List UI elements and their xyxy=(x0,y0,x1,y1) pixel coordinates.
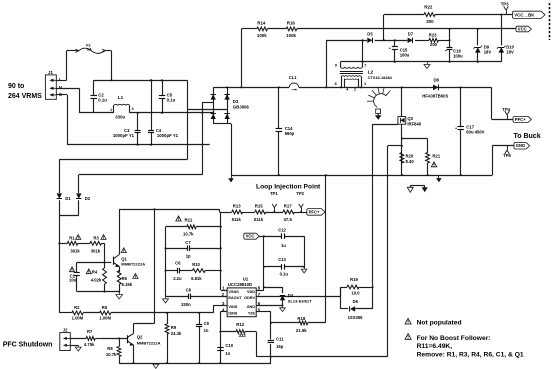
wire mid ground rail xyxy=(231,175,492,177)
bridge rectifier D3 xyxy=(211,87,230,123)
text D1 xyxy=(65,196,71,201)
text C11 value xyxy=(276,336,284,349)
svg-text:R1: R1 xyxy=(69,235,75,240)
warning triangle R3 xyxy=(101,235,106,240)
svg-text:R5: R5 xyxy=(102,305,108,310)
wire VSNS vertical xyxy=(220,212,222,290)
wire D1 D2 join xyxy=(59,215,79,313)
warning triangle R11 xyxy=(176,216,181,221)
svg-text:To Buck: To Buck xyxy=(514,133,541,140)
capacitor C9 xyxy=(196,313,202,363)
svg-text:R15: R15 xyxy=(255,203,263,208)
capacitor C6 R10 branch xyxy=(166,268,221,274)
text Q1 label xyxy=(121,256,145,266)
svg-text:100k: 100k xyxy=(257,33,267,38)
text L2 label xyxy=(368,70,393,80)
wire J1-L to fuse riser xyxy=(56,51,66,81)
diode D6 loop xyxy=(340,286,374,309)
text D3 GBJ606 xyxy=(233,99,250,109)
svg-text:R22: R22 xyxy=(424,5,433,10)
wire VINS line xyxy=(59,312,213,314)
text To Buck xyxy=(514,133,541,140)
test point TP2 xyxy=(296,191,304,213)
text D9 value xyxy=(484,45,492,55)
svg-text:D6: D6 xyxy=(353,299,359,304)
ground at C8 xyxy=(163,296,169,303)
wire PFC+ drop xyxy=(492,87,514,119)
wire loop line xyxy=(119,208,220,212)
text R3 xyxy=(91,235,101,253)
ground at D4 xyxy=(280,305,286,311)
text R14 value xyxy=(257,21,267,39)
text R18 value xyxy=(296,316,307,333)
wire source sense branch xyxy=(401,138,428,140)
svg-text:6.81k: 6.81k xyxy=(191,276,202,281)
text C16 value xyxy=(453,48,463,58)
wire loop injection line xyxy=(220,212,307,214)
svg-text:200: 200 xyxy=(430,42,438,47)
wire D2 feed xyxy=(79,175,203,194)
resistor R20 xyxy=(400,153,404,164)
test point TP4 xyxy=(502,107,510,119)
net flag PFC+ loop xyxy=(307,209,325,216)
fuse F1 xyxy=(66,48,111,53)
svg-text:1.00M: 1.00M xyxy=(99,315,111,320)
capacitor C15 xyxy=(389,40,398,62)
diode D2 xyxy=(76,193,81,215)
svg-text:8.40: 8.40 xyxy=(406,159,415,164)
svg-text:C9: C9 xyxy=(204,321,210,326)
svg-text:TP2: TP2 xyxy=(296,191,304,196)
svg-text:R14: R14 xyxy=(257,21,266,26)
diode D5 xyxy=(367,32,373,44)
wire bias ground rail xyxy=(340,61,501,63)
text C2 value xyxy=(98,92,107,102)
capacitor C7 branch xyxy=(166,245,221,251)
svg-text:D7: D7 xyxy=(408,32,414,37)
wire pin3 VINS jog xyxy=(213,305,227,313)
svg-text:301k: 301k xyxy=(70,249,80,254)
resistor R1 xyxy=(67,241,78,245)
svg-text:6.19k: 6.19k xyxy=(122,282,133,287)
wire R7 to Q2 base xyxy=(95,338,100,340)
junction dots on bus xyxy=(226,86,462,88)
text Q3 label xyxy=(407,116,421,126)
svg-text:R20: R20 xyxy=(406,154,414,159)
svg-text:R4: R4 xyxy=(92,270,98,275)
svg-text:R23: R23 xyxy=(429,32,437,37)
svg-text:GDRV: GDRV xyxy=(244,296,255,300)
wire L feed to bridge xyxy=(187,80,227,159)
resistor R15 xyxy=(255,210,266,214)
resistor R5 xyxy=(100,311,111,315)
wire R12 return xyxy=(256,332,271,357)
text U1 label xyxy=(228,276,252,287)
wire Q2 base line xyxy=(100,337,127,339)
capacitor C4 xyxy=(148,79,154,145)
resistor R19 xyxy=(347,285,359,289)
svg-text:MMBT2222A: MMBT2222A xyxy=(137,341,161,346)
wire VCC line xyxy=(241,28,516,30)
text C3 value xyxy=(113,128,135,138)
resistor R9 xyxy=(165,313,169,363)
text Q2 label xyxy=(137,335,161,346)
svg-text:R11=6.49K,: R11=6.49K, xyxy=(417,343,453,350)
svg-text:1n: 1n xyxy=(225,351,230,356)
text R8 value xyxy=(106,346,117,357)
wire pin8 VDD riser xyxy=(256,235,265,290)
text R11 value xyxy=(183,218,194,237)
wire bus tap to R14 line xyxy=(241,29,243,88)
resistor R2 xyxy=(72,311,83,315)
wire comp left rail xyxy=(165,227,167,296)
svg-text:R3: R3 xyxy=(93,235,99,240)
inductor L2 main winding xyxy=(341,76,362,88)
inductor L2 bias winding xyxy=(340,62,362,68)
svg-text:D2: D2 xyxy=(85,196,91,201)
text R16 value xyxy=(286,21,296,39)
warning triangle note2 xyxy=(405,334,411,340)
svg-text:D8: D8 xyxy=(434,78,440,83)
svg-text:C11: C11 xyxy=(276,336,284,341)
text CL1 xyxy=(289,75,297,80)
text R17 value xyxy=(284,203,293,222)
svg-text:R19: R19 xyxy=(350,277,358,282)
svg-text:1.00M: 1.00M xyxy=(72,315,84,320)
svg-text:CTX16-18484: CTX16-18484 xyxy=(368,75,393,80)
capacitor C1 xyxy=(74,262,105,291)
resistor R22 xyxy=(424,13,435,17)
svg-text:C13: C13 xyxy=(278,257,286,262)
ground J2 pin2 xyxy=(70,345,81,351)
text L1 labels xyxy=(110,95,134,119)
wire Q2 collector xyxy=(134,209,155,323)
svg-text:L: L xyxy=(59,77,62,82)
capacitor C8 EAOUT line xyxy=(166,294,228,300)
svg-text:MMBT2222A: MMBT2222A xyxy=(121,262,145,267)
ground arrow mid rail xyxy=(436,175,442,182)
wire filter top bus xyxy=(94,80,188,82)
diode D6 xyxy=(350,306,356,311)
text R22 value xyxy=(424,5,434,25)
svg-text:60u 450V: 60u 450V xyxy=(466,130,484,135)
svg-text:511k: 511k xyxy=(232,217,242,222)
svg-text:C10: C10 xyxy=(225,343,233,348)
diode D7 xyxy=(408,32,414,44)
text R10 value xyxy=(191,262,202,281)
wire rectified bus xyxy=(213,87,491,89)
junction dots bias line xyxy=(383,39,451,41)
svg-text:511k: 511k xyxy=(254,217,264,222)
wire pin7 GDRV xyxy=(256,296,340,298)
wire VCC line to C12 xyxy=(259,236,304,238)
resistor R16 xyxy=(286,27,297,31)
svg-text:UCC28810D: UCC28810D xyxy=(228,282,252,287)
capacitor C5 xyxy=(159,80,165,113)
spark gap symbol xyxy=(367,87,390,119)
svg-text:264 VRMS: 264 VRMS xyxy=(8,93,42,100)
text R21 label xyxy=(432,154,440,159)
junction dots bottom bus xyxy=(137,112,204,114)
wire GND flag to rail xyxy=(492,146,514,176)
net flag PFC+ output xyxy=(513,116,531,122)
svg-text:R12: R12 xyxy=(236,322,244,327)
svg-text:Remove: R1, R3, R4, R6, C1, &: Remove: R1, R3, R4, R6, C1, & Q1 xyxy=(417,352,524,359)
wire pin4 ISNS xyxy=(220,312,227,364)
wire bridge minus to chassis xyxy=(227,124,231,176)
wire R22 line xyxy=(384,15,513,41)
svg-text:2: 2 xyxy=(354,88,356,92)
svg-text:EAOUT: EAOUT xyxy=(228,296,242,300)
warning triangle R4 xyxy=(86,269,91,274)
svg-text:1000pF Y1: 1000pF Y1 xyxy=(113,133,135,138)
wire N riser to bridge xyxy=(202,102,213,175)
svg-text:18V: 18V xyxy=(484,49,492,54)
svg-text:N: N xyxy=(59,85,62,90)
text R6 label xyxy=(122,276,133,287)
ground below R6 xyxy=(116,292,123,299)
resistor R4 xyxy=(103,268,107,292)
ic U1 UCC28810 xyxy=(227,288,256,317)
capacitor C2 xyxy=(91,80,98,113)
svg-text:TP3: TP3 xyxy=(501,2,509,7)
wire ISNS return line xyxy=(271,146,388,357)
svg-text:R11: R11 xyxy=(185,218,193,223)
inrush limiter CL1 xyxy=(289,83,299,90)
svg-text:100u: 100u xyxy=(453,53,463,58)
text R13 value xyxy=(232,203,242,222)
ground bias rail xyxy=(424,62,430,69)
ground at C13 xyxy=(301,266,307,273)
svg-text:560p: 560p xyxy=(285,131,295,136)
resistor R11 branch xyxy=(166,225,221,229)
junction dot D10 top xyxy=(500,14,502,16)
resistor R18 branch xyxy=(271,175,326,325)
svg-text:PFC Shutdown: PFC Shutdown xyxy=(3,342,53,349)
resistor R14 xyxy=(257,27,268,31)
capacitor C17 xyxy=(455,87,464,175)
net flag GND output xyxy=(514,142,530,149)
svg-text:+: + xyxy=(455,126,457,130)
resistor R12 xyxy=(219,330,256,334)
resistor R21 xyxy=(426,139,430,176)
svg-text:R21: R21 xyxy=(432,154,440,159)
svg-text:C12: C12 xyxy=(278,227,286,232)
svg-text:7: 7 xyxy=(364,63,366,68)
svg-text:VCC__BK: VCC__BK xyxy=(514,12,535,17)
transistor Q1 xyxy=(114,209,120,272)
wire C12 to C13 loop xyxy=(304,236,306,267)
svg-text:+: + xyxy=(445,49,447,53)
capacitor C16 xyxy=(445,28,453,62)
warning triangle R6 xyxy=(133,274,138,279)
svg-text:0.1u: 0.1u xyxy=(280,272,289,277)
wire L2 pin7 riser xyxy=(362,39,364,62)
wire bottom ground rail xyxy=(119,362,271,365)
test point TP5 xyxy=(503,146,511,158)
svg-text:CL1: CL1 xyxy=(289,75,297,80)
text R12 value xyxy=(236,322,246,338)
ground tie symbols xyxy=(407,185,427,192)
svg-text:Not populated: Not populated xyxy=(417,319,462,326)
junction dots bottom rail xyxy=(133,362,222,364)
wire J1-N to bottom bus xyxy=(56,88,79,113)
svg-text:C7: C7 xyxy=(185,240,191,245)
svg-text:1: 1 xyxy=(110,108,112,112)
wire bias feed from bus xyxy=(326,40,328,87)
svg-text:C6: C6 xyxy=(175,260,181,265)
test point TP3 xyxy=(501,2,509,15)
svg-text:L1: L1 xyxy=(118,95,124,100)
text L2 pins6421 xyxy=(335,81,367,92)
svg-text:1p: 1p xyxy=(186,254,191,259)
resistor R17 xyxy=(283,210,294,214)
net flag VCC at U1 xyxy=(244,233,259,239)
svg-text:R10: R10 xyxy=(192,262,200,267)
svg-text:330n: 330n xyxy=(181,302,191,307)
resistor R6 xyxy=(117,271,121,292)
svg-text:PFC+: PFC+ xyxy=(309,209,320,214)
svg-text:Q1: Q1 xyxy=(121,256,127,261)
text R4 value xyxy=(91,270,102,283)
text C8 value xyxy=(181,288,192,307)
svg-text:1000pF Y1: 1000pF Y1 xyxy=(157,133,179,138)
svg-text:IRF840: IRF840 xyxy=(407,121,421,126)
capacitor C10 xyxy=(217,348,224,351)
svg-text:R9: R9 xyxy=(171,325,177,330)
svg-text:R6: R6 xyxy=(122,276,128,281)
svg-text:0.1u: 0.1u xyxy=(167,97,176,102)
wire bias diode line xyxy=(326,40,450,42)
text R9 value xyxy=(171,325,182,336)
svg-text:VCC: VCC xyxy=(246,234,255,239)
text C15 value xyxy=(400,48,410,58)
svg-text:R13: R13 xyxy=(233,203,241,208)
wire pin6 GND xyxy=(256,304,283,306)
text Loop Injection Point xyxy=(256,184,321,191)
zener diode D10 xyxy=(497,15,506,62)
text C14 value xyxy=(285,126,295,136)
capacitor C11 xyxy=(268,341,275,343)
text U1 pin names xyxy=(228,290,255,316)
net flag VCC xyxy=(516,26,531,32)
text D10 value xyxy=(506,45,514,55)
inductor L1 xyxy=(114,104,130,113)
svg-text:Q2: Q2 xyxy=(137,335,143,340)
transistor Q2 xyxy=(128,324,134,363)
text note2 xyxy=(417,335,524,359)
text C7 value xyxy=(185,240,191,259)
svg-text:10u: 10u xyxy=(69,278,77,283)
wire pin1 VSNS xyxy=(221,290,227,292)
svg-text:R8: R8 xyxy=(107,346,113,351)
svg-text:47.5: 47.5 xyxy=(284,217,293,222)
svg-text:D5: D5 xyxy=(367,32,373,37)
svg-text:16p: 16p xyxy=(276,344,284,349)
svg-text:0.1u: 0.1u xyxy=(98,97,107,102)
warning triangle C1 xyxy=(69,267,74,272)
zener diode D9 xyxy=(473,28,482,62)
svg-text:Loop Injection Point: Loop Injection Point xyxy=(256,184,321,191)
wire C1 R4 bottom xyxy=(77,291,120,293)
warning triangle note1 xyxy=(405,318,411,324)
diode D4 xyxy=(280,295,285,305)
resistor R23 xyxy=(429,32,439,47)
text C1 value xyxy=(69,273,77,282)
text R1 xyxy=(69,235,80,253)
capacitor C13 xyxy=(264,264,304,270)
junction dots mid rail xyxy=(278,174,462,176)
ground chassis arrow at bridge minus xyxy=(228,175,234,182)
svg-text:1u: 1u xyxy=(281,243,286,248)
svg-text:VCC: VCC xyxy=(518,27,527,32)
svg-text:330u: 330u xyxy=(115,114,125,119)
resistor R13 xyxy=(232,210,243,214)
svg-text:GND: GND xyxy=(516,143,525,148)
wire D1 feed xyxy=(59,160,187,194)
text C13 value xyxy=(278,257,288,276)
border dashes xyxy=(549,3,551,40)
text R7 value xyxy=(84,329,95,347)
svg-text:3: 3 xyxy=(132,107,134,111)
svg-text:100k: 100k xyxy=(286,33,296,38)
resistor R8 xyxy=(117,338,121,363)
text C9 value xyxy=(204,321,210,333)
text note1 xyxy=(417,319,462,326)
mosfet Q3 xyxy=(398,87,406,175)
svg-text:VSNS: VSNS xyxy=(228,290,239,294)
svg-text:TP4: TP4 xyxy=(502,107,510,112)
wire R3 to Q1 base xyxy=(104,243,112,263)
svg-text:ISNS: ISNS xyxy=(228,311,237,315)
svg-text:TZE: TZE xyxy=(248,311,256,315)
svg-text:R2: R2 xyxy=(74,305,80,310)
svg-text:VDD: VDD xyxy=(247,290,255,294)
wire Q3 gate xyxy=(373,124,398,126)
svg-text:For No Boost Follower:: For No Boost Follower: xyxy=(417,335,491,342)
net flag VCC__BK xyxy=(513,11,546,18)
svg-text:21.5k: 21.5k xyxy=(296,328,307,333)
svg-text:GND: GND xyxy=(247,305,256,309)
svg-text:+: + xyxy=(389,46,391,50)
wire GDRV riser xyxy=(340,287,373,296)
svg-text:10.0: 10.0 xyxy=(351,290,360,295)
resistor R7 xyxy=(86,337,95,341)
text J1 pin names xyxy=(59,77,63,97)
wire D4 top xyxy=(264,287,283,293)
test point TP1 xyxy=(270,191,278,213)
junction dots on top bus xyxy=(111,79,164,81)
warning triangle R21 xyxy=(431,162,436,167)
text R2 value xyxy=(72,305,84,321)
svg-text:24.3k: 24.3k xyxy=(171,331,182,336)
svg-text:3A: 3A xyxy=(87,47,92,52)
svg-text:HFA08TB60S: HFA08TB60S xyxy=(422,93,448,98)
svg-text:D1: D1 xyxy=(65,196,71,201)
svg-text:4.75k: 4.75k xyxy=(84,342,95,347)
svg-text:2.2u: 2.2u xyxy=(173,276,182,281)
text F1 3A xyxy=(86,42,92,51)
svg-text:10.7k: 10.7k xyxy=(183,231,194,236)
svg-text:R16: R16 xyxy=(287,21,296,26)
wire current sense line xyxy=(388,145,403,147)
svg-text:U1: U1 xyxy=(243,276,249,281)
svg-text:1n: 1n xyxy=(204,328,209,333)
text C17 value xyxy=(466,125,484,135)
svg-text:100u: 100u xyxy=(400,53,410,58)
text D6 value xyxy=(348,299,364,320)
svg-text:4.02k: 4.02k xyxy=(91,278,102,283)
